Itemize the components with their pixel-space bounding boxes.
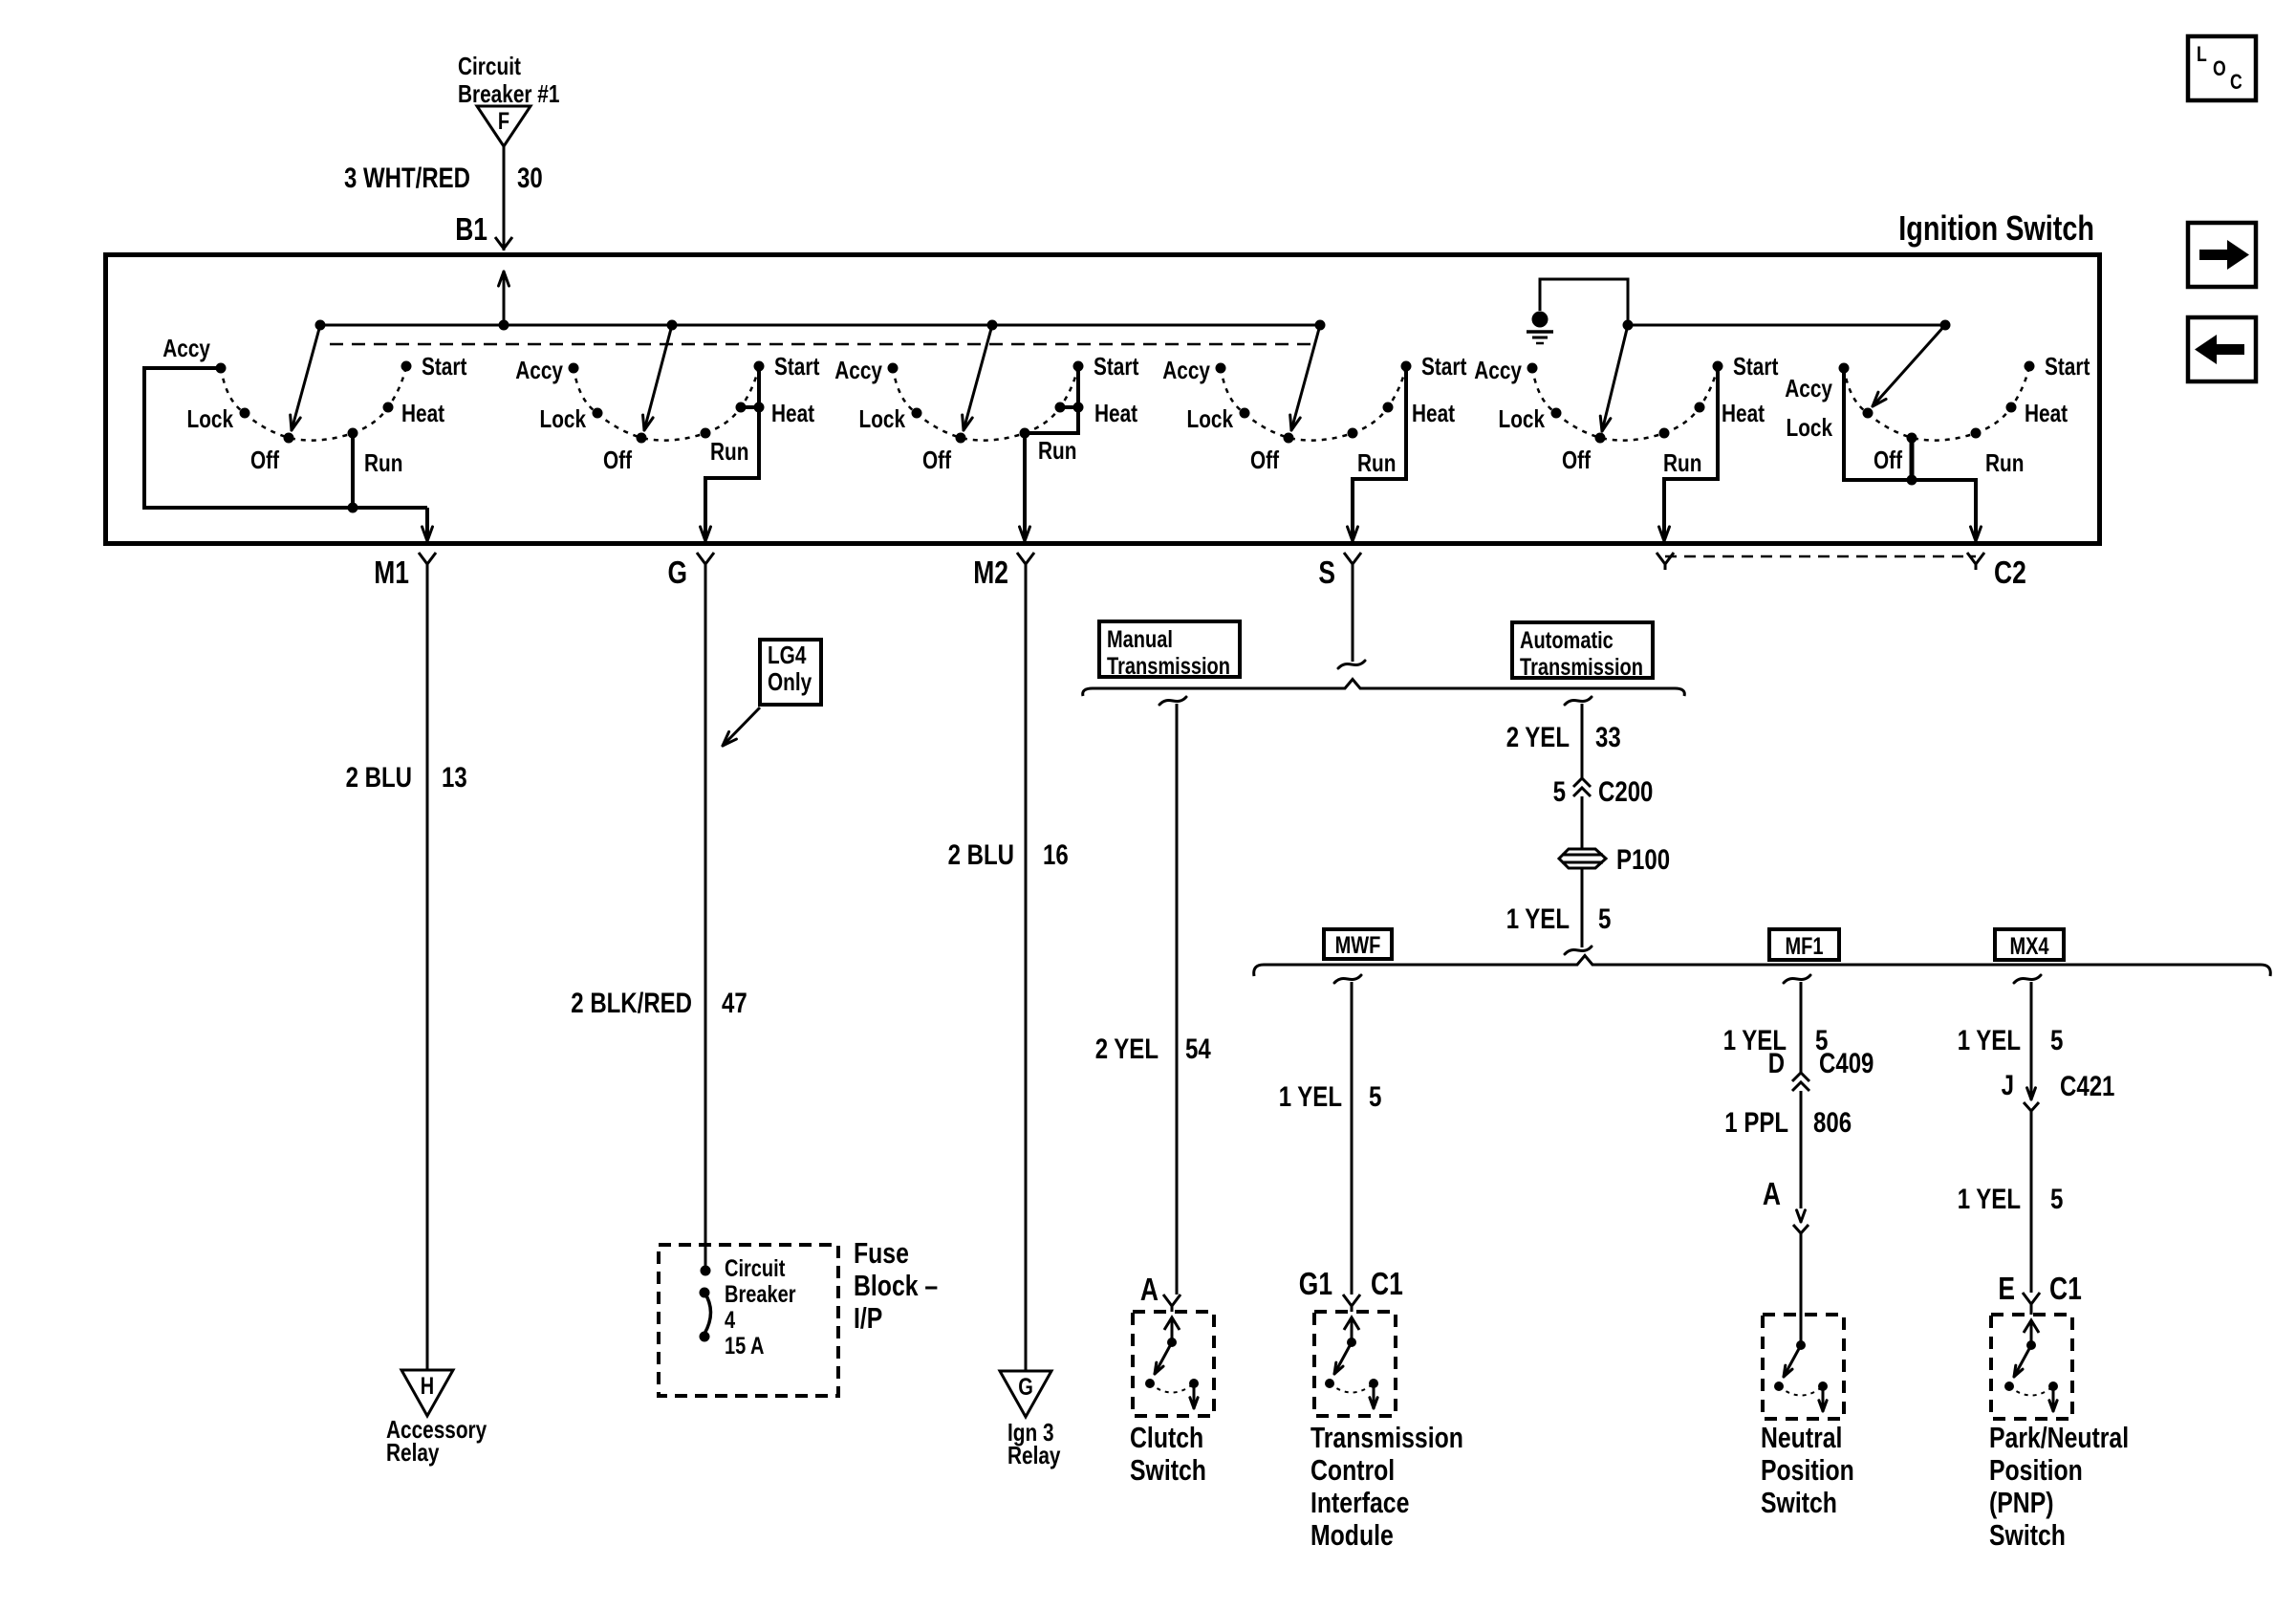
wire label 1 YEL 5 <box>1506 903 1612 935</box>
switch 4 contact dots <box>1216 361 1412 444</box>
fuse block dashed box <box>659 1245 838 1396</box>
svg-text:Off: Off <box>922 446 951 474</box>
svg-text:C200: C200 <box>1598 776 1653 808</box>
svg-text:G: G <box>1018 1374 1033 1401</box>
svg-text:Fuse: Fuse <box>854 1236 909 1270</box>
svg-text:MF1: MF1 <box>1786 933 1824 960</box>
switch 4 position labels <box>1162 352 1466 477</box>
terminal S <box>1318 553 1361 662</box>
svg-text:Accy: Accy <box>515 356 563 384</box>
switch 2 contact arc <box>574 366 759 441</box>
svg-text:E: E <box>1998 1271 2015 1306</box>
switch 6 contact arc <box>1844 366 2029 441</box>
ign 3 relay label <box>1007 1418 1061 1469</box>
svg-text:Circuit: Circuit <box>458 52 521 80</box>
switch 2 wiper arrow <box>643 320 678 431</box>
svg-text:5: 5 <box>1598 903 1611 935</box>
svg-text:Heat: Heat <box>2025 399 2068 427</box>
wire break at S <box>1338 661 1365 668</box>
svg-text:H: H <box>421 1373 434 1400</box>
svg-text:P100: P100 <box>1616 844 1670 876</box>
svg-text:Relay: Relay <box>1007 1441 1061 1469</box>
svg-text:A: A <box>1763 1176 1781 1211</box>
wire label 2 BLU 16 <box>948 839 1069 871</box>
switch 3 start/heat/run output wire to M2 <box>1020 366 1078 541</box>
wire manual transmission branch <box>1159 697 1186 1295</box>
LG4 callout arrow <box>723 707 760 746</box>
svg-text:2 BLU: 2 BLU <box>948 839 1014 871</box>
svg-text:1 YEL: 1 YEL <box>1958 1184 2021 1215</box>
wire automatic transmission branch <box>1565 697 1592 778</box>
svg-text:Lock: Lock <box>1787 413 1833 442</box>
circuit breaker 4 label <box>725 1255 796 1360</box>
switch 1 contact dots <box>216 361 412 444</box>
svg-text:Module: Module <box>1310 1518 1394 1552</box>
switch 4 contact arc <box>1221 366 1406 441</box>
svg-text:Accy: Accy <box>162 334 210 362</box>
svg-text:1 PPL: 1 PPL <box>1724 1107 1788 1139</box>
wire label 1 YEL 5 (MWF branch) <box>1279 1081 1382 1113</box>
svg-text:M1: M1 <box>374 555 409 590</box>
switch 3 contact arc <box>893 366 1078 441</box>
switch 6 wiper arrow <box>1873 320 1951 407</box>
svg-text:Start: Start <box>1421 352 1467 381</box>
wire label 2 BLK/RED 47 <box>571 988 747 1019</box>
svg-text:D: D <box>1768 1048 1785 1079</box>
transmission split brace <box>1083 680 1685 697</box>
relay H symbol <box>401 1370 453 1416</box>
switch 6 accessory wire <box>1844 368 1981 541</box>
wire label 2 YEL 33 <box>1506 722 1621 753</box>
svg-text:Lock: Lock <box>1499 404 1546 433</box>
svg-text:806: 806 <box>1813 1107 1852 1139</box>
svg-text:MWF: MWF <box>1335 932 1381 959</box>
connector C409 pin D <box>1768 1048 1874 1091</box>
terminals E C1 at PNP switch <box>1998 1271 2081 1315</box>
switch 1 run contact wire <box>348 433 358 513</box>
svg-text:C409: C409 <box>1819 1048 1874 1079</box>
switch 3 position labels <box>834 352 1138 474</box>
switch 5 wiper arrow <box>1600 320 1633 432</box>
svg-text:Transmission: Transmission <box>1107 653 1230 680</box>
svg-text:Run: Run <box>1985 448 2024 477</box>
park/neutral position switch label <box>1989 1421 2129 1552</box>
svg-text:30: 30 <box>517 163 543 194</box>
svg-text:Heat: Heat <box>401 399 444 427</box>
neutral position switch box <box>1763 1315 1844 1419</box>
wire MX4 branch lower <box>2030 1111 2033 1293</box>
junction B1-bus <box>499 320 509 331</box>
svg-text:Lock: Lock <box>540 404 587 433</box>
svg-text:B1: B1 <box>455 211 487 247</box>
svg-text:2 BLK/RED: 2 BLK/RED <box>571 988 692 1019</box>
ignition switch label <box>1898 208 2094 248</box>
wire label 3 WHT/RED 30 <box>344 163 543 194</box>
terminals G1 C1 at TCIM <box>1299 1266 1403 1312</box>
svg-text:Position: Position <box>1989 1453 2083 1487</box>
fusible link F symbol <box>477 106 531 146</box>
svg-text:Switch: Switch <box>1989 1518 2066 1552</box>
svg-text:Transmission: Transmission <box>1310 1421 1463 1454</box>
transmission control interface module box <box>1314 1312 1396 1416</box>
svg-text:Accy: Accy <box>1785 374 1832 402</box>
svg-text:Off: Off <box>1874 446 1902 474</box>
svg-text:Block –: Block – <box>854 1269 938 1302</box>
neutral position switch label <box>1761 1421 1854 1519</box>
connector C200 <box>1553 776 1654 849</box>
terminal C2 pin left <box>1657 553 1674 570</box>
svg-text:Automatic: Automatic <box>1520 627 1614 654</box>
ignition switch box <box>106 255 2100 544</box>
connector C421 pin J <box>2002 1070 2115 1111</box>
svg-text:Lock: Lock <box>1187 404 1234 433</box>
switch 5 contact dots <box>1527 361 1723 444</box>
wire B1 to ignition switch <box>503 146 506 250</box>
switch 5 position labels <box>1474 352 1778 477</box>
svg-text:2 YEL: 2 YEL <box>1506 722 1570 753</box>
svg-text:C421: C421 <box>2060 1071 2114 1102</box>
svg-text:15 A: 15 A <box>725 1333 765 1360</box>
clutch switch box <box>1133 1312 1214 1416</box>
svg-text:3 WHT/RED: 3 WHT/RED <box>344 163 470 194</box>
wire B1 feed into box with up arrow <box>499 272 509 325</box>
switch 4 wiper arrow <box>1290 320 1326 431</box>
wire label 1 YEL 5 (MX4 lower) <box>1958 1184 2064 1215</box>
svg-text:13: 13 <box>442 762 467 794</box>
switch 1 position labels <box>162 334 466 477</box>
switch 5 contact arc <box>1532 366 1718 441</box>
LG4 Only callout box <box>760 640 821 705</box>
back arrow box <box>2188 317 2256 381</box>
svg-text:Accy: Accy <box>1474 356 1522 384</box>
switch 1 wiper arrow <box>291 320 326 431</box>
svg-text:2 BLU: 2 BLU <box>346 762 412 794</box>
svg-text:Accy: Accy <box>1162 356 1210 384</box>
svg-text:C1: C1 <box>1371 1266 1403 1301</box>
svg-text:Heat: Heat <box>1412 399 1455 427</box>
terminal G <box>668 553 715 1271</box>
switch 2 heat link bar <box>741 402 765 413</box>
wire label 1 YEL 5 (MF1 branch) <box>1723 1025 1829 1056</box>
switch 6 position labels <box>1785 352 2090 477</box>
MX4 tag box <box>1995 929 2064 960</box>
svg-text:Run: Run <box>710 437 748 466</box>
svg-text:C1: C1 <box>2049 1271 2082 1306</box>
svg-text:5: 5 <box>1369 1081 1381 1113</box>
svg-text:C2: C2 <box>1994 555 2026 590</box>
svg-text:Transmission: Transmission <box>1520 654 1643 681</box>
svg-text:J: J <box>2002 1070 2014 1101</box>
svg-text:54: 54 <box>1185 1033 1211 1065</box>
svg-text:Clutch: Clutch <box>1130 1421 1203 1454</box>
svg-text:5: 5 <box>1553 776 1566 808</box>
svg-text:Interface: Interface <box>1310 1486 1409 1519</box>
svg-text:Circuit: Circuit <box>725 1255 786 1282</box>
svg-text:Switch: Switch <box>1130 1453 1206 1487</box>
circuit breaker #1 label <box>458 52 559 108</box>
forward arrow box <box>2188 223 2256 287</box>
svg-text:Relay: Relay <box>386 1438 440 1467</box>
svg-text:Start: Start <box>1094 352 1139 381</box>
svg-text:1 YEL: 1 YEL <box>1279 1081 1342 1113</box>
svg-text:Off: Off <box>1250 446 1279 474</box>
svg-text:2 YEL: 2 YEL <box>1095 1033 1159 1065</box>
accessory relay label <box>386 1415 487 1467</box>
svg-text:Start: Start <box>422 352 467 381</box>
svg-text:Off: Off <box>1562 446 1591 474</box>
svg-text:Start: Start <box>1733 352 1779 381</box>
svg-text:A: A <box>1140 1272 1159 1307</box>
svg-text:Control: Control <box>1310 1453 1395 1487</box>
svg-text:Lock: Lock <box>187 404 234 433</box>
svg-text:M2: M2 <box>973 555 1008 590</box>
wire label 2 BLU 13 <box>346 762 467 794</box>
transmission control interface module label <box>1310 1421 1463 1552</box>
svg-text:(PNP): (PNP) <box>1989 1486 2054 1519</box>
svg-text:Start: Start <box>774 352 820 381</box>
park/neutral position switch box <box>1991 1315 2072 1419</box>
internal dashed bus <box>330 343 1312 346</box>
svg-text:Off: Off <box>250 446 279 474</box>
svg-text:Heat: Heat <box>771 399 814 427</box>
switch 2 start/heat output wire to G <box>701 366 759 541</box>
internal bus wire right <box>1628 324 1945 327</box>
svg-text:L: L <box>2197 42 2207 66</box>
clutch switch label <box>1130 1421 1206 1487</box>
LOC legend box <box>2188 36 2256 100</box>
terminal A at clutch switch <box>1140 1272 1180 1312</box>
connector C2 dashed link <box>1665 555 1976 558</box>
svg-text:16: 16 <box>1043 839 1069 871</box>
svg-text:1 YEL: 1 YEL <box>1506 903 1570 935</box>
automatic transmission label box <box>1512 622 1653 681</box>
svg-text:1 YEL: 1 YEL <box>1958 1025 2021 1056</box>
terminal M1 <box>374 553 436 1370</box>
ground symbol <box>1527 312 1553 344</box>
switch 6 contact dots <box>1839 361 2035 444</box>
switch 3 heat link bar <box>1060 402 1084 413</box>
svg-text:I/P: I/P <box>854 1301 882 1335</box>
svg-text:F: F <box>498 108 509 135</box>
svg-text:5: 5 <box>2050 1184 2063 1215</box>
switch 3 wiper arrow <box>963 320 998 431</box>
splice A continuation <box>1763 1176 1809 1233</box>
MWF tag box <box>1324 929 1392 959</box>
svg-text:5: 5 <box>2050 1025 2063 1056</box>
svg-text:Start: Start <box>2045 352 2090 381</box>
internal bus wire left <box>320 324 1320 327</box>
svg-text:47: 47 <box>722 988 747 1019</box>
switch 1 contact arc <box>221 366 406 441</box>
svg-text:33: 33 <box>1595 722 1621 753</box>
wire label 2 YEL 54 <box>1095 1033 1211 1065</box>
circuit breaker 4 symbol <box>700 1266 711 1342</box>
terminal C2 pin right <box>1967 553 2026 590</box>
svg-text:MX4: MX4 <box>2009 933 2048 960</box>
svg-text:Manual: Manual <box>1107 626 1173 653</box>
svg-text:LG4: LG4 <box>768 641 807 669</box>
wire label 1 YEL 5 (MX4 upper) <box>1958 1025 2064 1056</box>
svg-text:Accy: Accy <box>834 356 882 384</box>
svg-text:Off: Off <box>603 446 632 474</box>
svg-text:Heat: Heat <box>1094 399 1137 427</box>
svg-text:Heat: Heat <box>1722 399 1765 427</box>
MF1 tag box <box>1769 929 1839 960</box>
terminal M2 <box>973 553 1034 1371</box>
switch 1 output wire to M1 <box>422 508 433 541</box>
terminal label B1 <box>455 211 487 247</box>
wire MF1 branch upper <box>1784 975 1810 1073</box>
switch 4 start output wire to S <box>1348 366 1406 541</box>
svg-text:S: S <box>1318 555 1335 590</box>
manual transmission label box <box>1099 621 1240 680</box>
svg-text:Neutral: Neutral <box>1761 1421 1842 1454</box>
svg-text:O: O <box>2213 56 2226 80</box>
switch 2 contact dots <box>569 361 765 444</box>
svg-text:Position: Position <box>1761 1453 1854 1487</box>
svg-text:Run: Run <box>1038 436 1076 465</box>
svg-text:Run: Run <box>364 448 402 477</box>
switch 6 off contact stub <box>1907 438 1917 486</box>
wire MWF branch to TCIM <box>1334 975 1361 1295</box>
switch 2 position labels <box>515 352 819 474</box>
wire MF1 branch lower <box>1800 1233 1803 1345</box>
svg-text:Only: Only <box>768 667 812 696</box>
splice P100 <box>1559 844 1670 876</box>
relay G symbol <box>1000 1371 1051 1417</box>
svg-text:G1: G1 <box>1299 1266 1332 1301</box>
svg-text:Park/Neutral: Park/Neutral <box>1989 1421 2129 1454</box>
fuse block label <box>854 1236 938 1335</box>
svg-text:Breaker #1: Breaker #1 <box>458 79 559 108</box>
connector at B1 <box>495 237 512 249</box>
svg-text:Ignition Switch: Ignition Switch <box>1898 208 2094 248</box>
switch 5 start output wire <box>1659 366 1718 541</box>
wire label 1 PPL 806 <box>1724 1107 1852 1139</box>
svg-text:Lock: Lock <box>859 404 906 433</box>
wire MX4 branch upper <box>2014 975 2041 1099</box>
svg-text:Run: Run <box>1663 448 1701 477</box>
wire MF1 branch middle <box>1800 1091 1803 1208</box>
switch 1 accessory loop wire <box>144 368 427 508</box>
svg-text:Run: Run <box>1357 448 1396 477</box>
svg-text:C: C <box>2230 70 2242 94</box>
bus wire MWF/MF1/MX4 <box>1254 956 2271 977</box>
svg-text:G: G <box>668 555 688 590</box>
svg-text:Breaker: Breaker <box>725 1281 796 1308</box>
wire ground loop <box>1540 279 1628 325</box>
wire P100 to bus <box>1565 868 1592 954</box>
svg-text:4: 4 <box>725 1307 735 1334</box>
svg-text:Switch: Switch <box>1761 1486 1837 1519</box>
switch 3 contact dots <box>888 361 1084 444</box>
